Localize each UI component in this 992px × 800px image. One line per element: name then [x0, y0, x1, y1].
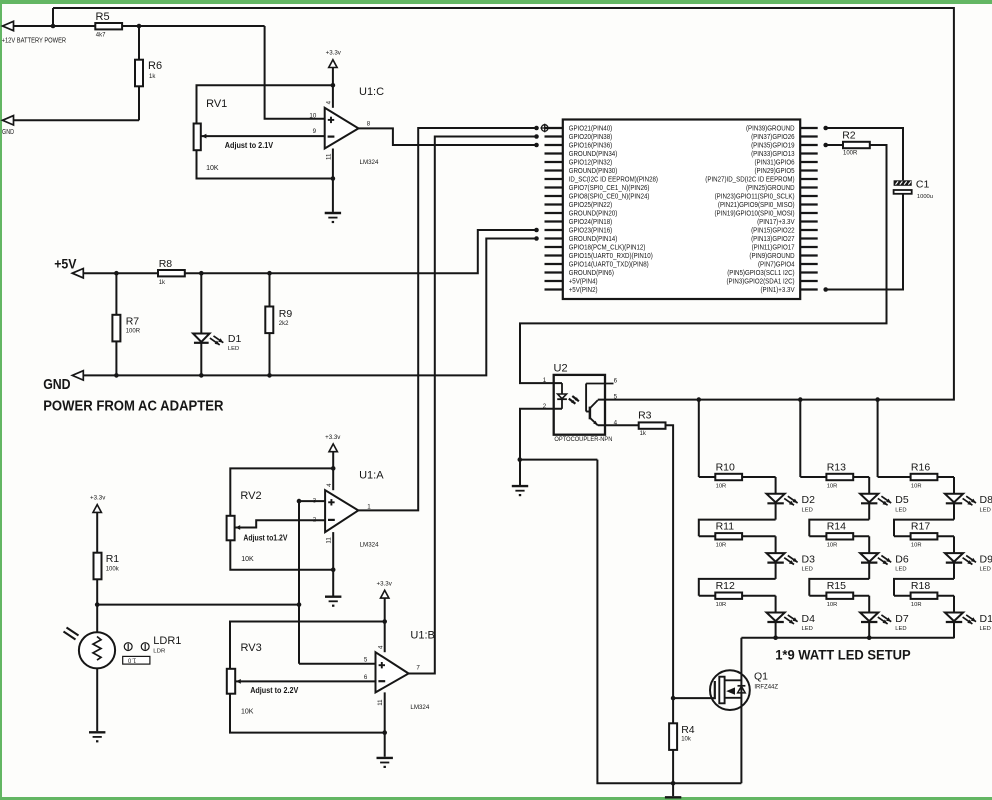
svg-text:(PIN13)GPIO27: (PIN13)GPIO27	[751, 236, 795, 243]
svg-text:9: 9	[313, 128, 317, 135]
svg-text:10R: 10R	[827, 543, 838, 549]
svg-text:GPIO15(UART0_RXD)(PIN10): GPIO15(UART0_RXD)(PIN10)	[569, 253, 653, 260]
svg-text:GPIO7(SPI0_CE1_N)(PIN26): GPIO7(SPI0_CE1_N)(PIN26)	[569, 185, 650, 192]
svg-text:1k: 1k	[640, 431, 647, 437]
svg-text:Q1: Q1	[754, 671, 768, 683]
svg-text:10R: 10R	[716, 602, 727, 608]
svg-text:GPIO25(PIN22): GPIO25(PIN22)	[569, 202, 613, 209]
svg-text:LED: LED	[980, 567, 992, 573]
svg-text:R5: R5	[96, 11, 110, 23]
svg-text:D6: D6	[895, 554, 909, 566]
svg-text:GPIO8(SPI0_CE0_N)(PIN24): GPIO8(SPI0_CE0_N)(PIN24)	[569, 193, 650, 200]
svg-text:6: 6	[364, 674, 368, 681]
svg-text:(PIN31)GPIO6: (PIN31)GPIO6	[755, 159, 795, 166]
svg-text:(PIN15)GPIO22: (PIN15)GPIO22	[751, 227, 795, 234]
svg-text:D4: D4	[802, 613, 816, 625]
svg-text:GPIO18(PCM_CLK)(PIN12): GPIO18(PCM_CLK)(PIN12)	[569, 244, 646, 251]
svg-text:D7: D7	[895, 613, 909, 625]
svg-text:R12: R12	[716, 580, 735, 592]
svg-text:GPIO16(PIN36): GPIO16(PIN36)	[569, 142, 613, 149]
svg-text:R8: R8	[159, 258, 173, 270]
svg-text:LM324: LM324	[360, 159, 379, 166]
svg-text:LED: LED	[895, 567, 907, 573]
svg-text:+3.3v: +3.3v	[326, 50, 342, 57]
svg-text:R2: R2	[842, 130, 856, 142]
svg-text:GPIO12(PIN32): GPIO12(PIN32)	[569, 159, 613, 166]
svg-text:R18: R18	[911, 580, 930, 592]
svg-text:D1: D1	[228, 333, 242, 345]
svg-text:D8: D8	[980, 494, 992, 506]
svg-text:C1: C1	[916, 179, 930, 191]
svg-text:(PIN7)GPIO4: (PIN7)GPIO4	[758, 261, 795, 268]
svg-text:1: 1	[367, 504, 371, 511]
svg-text:R10: R10	[716, 461, 735, 473]
svg-text:4: 4	[378, 645, 385, 649]
svg-text:100k: 100k	[106, 567, 120, 573]
svg-text:1k: 1k	[149, 74, 156, 80]
svg-text:10R: 10R	[827, 602, 838, 608]
svg-text:+3.3v: +3.3v	[90, 495, 106, 502]
svg-text:10R: 10R	[827, 483, 838, 489]
svg-text:10: 10	[309, 113, 316, 120]
svg-text:1: 1	[543, 377, 547, 384]
svg-text:2: 2	[543, 403, 547, 410]
svg-text:GND: GND	[2, 129, 14, 136]
svg-text:GND: GND	[43, 377, 70, 393]
svg-text:LED: LED	[980, 626, 992, 632]
svg-text:10K: 10K	[206, 165, 219, 172]
svg-text:IRFZ44Z: IRFZ44Z	[754, 685, 778, 691]
svg-text:R3: R3	[638, 410, 652, 422]
svg-text:100R: 100R	[843, 150, 858, 156]
svg-text:POWER FROM AC ADAPTER: POWER FROM AC ADAPTER	[43, 398, 224, 414]
svg-text:4k7: 4k7	[96, 33, 106, 39]
svg-text:LED: LED	[980, 507, 992, 513]
svg-text:LED: LED	[802, 626, 814, 632]
svg-text:GROUND(PIN34): GROUND(PIN34)	[569, 151, 618, 158]
svg-text:RV1: RV1	[206, 98, 227, 110]
svg-text:(PIN17)+3.3V: (PIN17)+3.3V	[757, 219, 795, 226]
svg-text:11: 11	[377, 699, 384, 706]
svg-text:GROUND(PIN14): GROUND(PIN14)	[569, 236, 618, 243]
svg-text:(PIN29)GPIO5: (PIN29)GPIO5	[755, 168, 795, 175]
svg-text:GPIO24(PIN18): GPIO24(PIN18)	[569, 219, 613, 226]
svg-text:GROUND(PIN30): GROUND(PIN30)	[569, 168, 618, 175]
svg-text:GROUND(PIN20): GROUND(PIN20)	[569, 210, 618, 217]
svg-text:D3: D3	[802, 554, 816, 566]
svg-text:LDR: LDR	[153, 648, 165, 654]
svg-text:(PIN33)GPIO13: (PIN33)GPIO13	[751, 151, 795, 158]
svg-text:R9: R9	[279, 308, 293, 320]
svg-text:+5V: +5V	[54, 255, 77, 271]
svg-text:LM324: LM324	[360, 541, 379, 548]
svg-text:(PIN21)GPIO9(SPI0_MISO): (PIN21)GPIO9(SPI0_MISO)	[718, 202, 795, 209]
svg-text:10K: 10K	[241, 556, 254, 563]
svg-text:D1: D1	[980, 613, 992, 625]
svg-text:8: 8	[367, 121, 371, 128]
svg-text:4: 4	[326, 100, 333, 104]
svg-text:GROUND(PIN6): GROUND(PIN6)	[569, 270, 614, 277]
svg-text:R1: R1	[106, 553, 120, 565]
svg-text:U2: U2	[554, 362, 568, 374]
svg-text:GPIO23(PIN16): GPIO23(PIN16)	[569, 227, 613, 234]
svg-text:(PIN1)+3.3V: (PIN1)+3.3V	[761, 287, 795, 294]
svg-text:2: 2	[313, 517, 317, 524]
svg-text:U1:C: U1:C	[359, 86, 384, 98]
svg-text:(PIN27)ID_SD(I2C ID EEPROM): (PIN27)ID_SD(I2C ID EEPROM)	[705, 176, 794, 183]
svg-text:(PIN3)GPIO2(SDA1 I2C): (PIN3)GPIO2(SDA1 I2C)	[727, 278, 795, 285]
svg-text:4: 4	[326, 483, 333, 487]
svg-text:GPIO21(PIN40): GPIO21(PIN40)	[569, 125, 613, 132]
svg-text:LDR1: LDR1	[153, 635, 181, 647]
svg-text:U1:B: U1:B	[410, 630, 434, 642]
svg-text:R17: R17	[911, 521, 930, 533]
svg-text:1.0: 1.0	[127, 657, 136, 663]
svg-text:10R: 10R	[911, 483, 922, 489]
svg-text:LM324: LM324	[410, 704, 429, 711]
svg-text:+3.3v: +3.3v	[377, 580, 393, 587]
svg-text:1k: 1k	[159, 280, 166, 286]
svg-text:4: 4	[614, 420, 618, 427]
svg-text:(PIN25)GROUND: (PIN25)GROUND	[746, 185, 795, 192]
svg-text:R16: R16	[911, 461, 930, 473]
svg-text:LED: LED	[895, 626, 907, 632]
svg-text:(PIN23)GPIO11(SPI0_SCLK): (PIN23)GPIO11(SPI0_SCLK)	[715, 193, 795, 200]
svg-text:6: 6	[614, 377, 618, 384]
svg-text:GPIO20(PIN38): GPIO20(PIN38)	[569, 134, 613, 141]
svg-text:+3.3v: +3.3v	[325, 434, 341, 441]
svg-text:LED: LED	[802, 567, 814, 573]
svg-text:R15: R15	[827, 580, 846, 592]
svg-text:10k: 10k	[681, 737, 692, 743]
svg-text:GPIO14(UART0_TXD)(PIN8): GPIO14(UART0_TXD)(PIN8)	[569, 261, 649, 268]
svg-text:R7: R7	[126, 316, 140, 328]
svg-text:3: 3	[313, 498, 317, 505]
svg-text:+12V BATTERY POWER: +12V BATTERY POWER	[2, 37, 67, 44]
svg-text:Adjust to1.2V: Adjust to1.2V	[243, 533, 288, 542]
svg-text:D9: D9	[980, 554, 992, 566]
svg-text:(PIN5)GPIO3(SCL1 I2C): (PIN5)GPIO3(SCL1 I2C)	[727, 270, 794, 277]
svg-text:2k2: 2k2	[279, 321, 289, 327]
svg-text:(PIN11)GPIO17: (PIN11)GPIO17	[752, 244, 795, 251]
svg-text:11: 11	[326, 537, 333, 544]
svg-text:R14: R14	[827, 521, 846, 533]
svg-text:RV2: RV2	[240, 490, 261, 502]
svg-text:10R: 10R	[911, 543, 922, 549]
svg-text:7: 7	[416, 665, 420, 672]
svg-text:ID_SC(I2C ID EEPROM)(PIN28): ID_SC(I2C ID EEPROM)(PIN28)	[569, 176, 658, 183]
svg-text:(PIN35)GPIO19: (PIN35)GPIO19	[751, 142, 795, 149]
svg-text:(PIN9)GROUND: (PIN9)GROUND	[749, 253, 794, 260]
svg-text:100R: 100R	[126, 329, 141, 335]
svg-text:D2: D2	[802, 494, 816, 506]
svg-text:Adjust to 2.1V: Adjust to 2.1V	[225, 141, 274, 150]
svg-text:OPTOCOUPLER-NPN: OPTOCOUPLER-NPN	[554, 436, 612, 443]
svg-text:U1:A: U1:A	[359, 470, 384, 482]
svg-text:R11: R11	[716, 521, 735, 533]
svg-text:D5: D5	[895, 494, 909, 506]
svg-text:RV3: RV3	[241, 642, 262, 654]
svg-text:10R: 10R	[716, 543, 727, 549]
svg-text:5: 5	[364, 657, 368, 664]
svg-text:+5V(PIN2): +5V(PIN2)	[569, 287, 598, 294]
svg-text:LED: LED	[895, 507, 907, 513]
svg-text:R6: R6	[148, 60, 162, 72]
svg-text:(PIN39)GROUND: (PIN39)GROUND	[746, 125, 795, 132]
svg-text:(PIN37)GPIO26: (PIN37)GPIO26	[751, 134, 795, 141]
svg-text:+5V(PIN4): +5V(PIN4)	[569, 278, 598, 285]
svg-text:10K: 10K	[241, 708, 254, 715]
svg-text:10R: 10R	[911, 602, 922, 608]
svg-text:1000u: 1000u	[917, 194, 933, 200]
svg-text:R4: R4	[681, 724, 695, 736]
svg-text:(PIN19)GPIO10(SPI0_MOSI): (PIN19)GPIO10(SPI0_MOSI)	[715, 210, 795, 217]
svg-text:LED: LED	[802, 507, 814, 513]
svg-text:10R: 10R	[716, 483, 727, 489]
svg-text:LED: LED	[228, 346, 240, 352]
svg-text:5: 5	[614, 394, 618, 401]
svg-text:Adjust to 2.2V: Adjust to 2.2V	[250, 686, 299, 695]
svg-text:R13: R13	[827, 461, 846, 473]
svg-text:11: 11	[325, 153, 332, 160]
svg-text:1*9 WATT LED SETUP: 1*9 WATT LED SETUP	[775, 647, 911, 662]
